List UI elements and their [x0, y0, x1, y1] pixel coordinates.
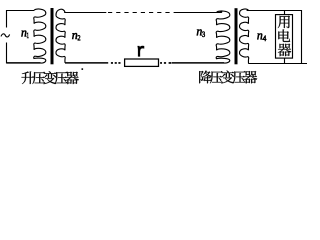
winding n1 (primary, step-up transformer) [34, 9, 46, 63]
label n2 [72, 33, 77, 39]
label qi (appliance char 3) [278, 44, 291, 57]
stray dot [82, 68, 84, 70]
winding n4 (secondary, step-down transformer) [239, 9, 248, 64]
wire: bottom line dots (left of r) [111, 62, 113, 64]
wire: top transmission line (dashed) [108, 12, 177, 14]
label dian (appliance char 2) [278, 29, 290, 41]
wire: bottom transmission line (solid from n2) [65, 62, 108, 64]
label r [138, 46, 144, 56]
wire: left loop left edge upper [6, 10, 8, 28]
load box (appliance) [276, 15, 293, 59]
caption: step-up transformer [21, 71, 34, 84]
wire: bottom transmission line (solid to n3) [172, 62, 224, 64]
transformer core (right) [235, 8, 238, 64]
wire: top transmission line (solid to n3) [177, 12, 222, 14]
label n4 [257, 33, 262, 39]
wire: load box bottom stub [284, 58, 286, 63]
wire: top transmission line (solid from n2) [64, 12, 106, 14]
wire: right loop bottom [248, 63, 307, 65]
caption: step-down transformer [199, 71, 211, 84]
wire: left loop bottom [7, 62, 41, 64]
transformer core (left) [51, 8, 54, 64]
winding n2 (secondary, step-up transformer) [56, 9, 65, 63]
AC source ~ [1, 34, 10, 37]
wire: right loop right edge [301, 10, 303, 64]
wire: bottom line dots (right of r) [160, 62, 162, 64]
resistor r (line resistance box) [125, 59, 159, 66]
wire: left loop left edge lower [6, 43, 8, 64]
label n3 [197, 29, 202, 35]
wire: left loop top [7, 10, 35, 12]
wire: right loop top [247, 10, 302, 12]
winding n3 (primary, step-down transformer) [216, 11, 230, 63]
label yong (appliance char 1) [278, 16, 290, 28]
label n1 [21, 30, 26, 36]
wire: load box top stub [284, 11, 286, 15]
